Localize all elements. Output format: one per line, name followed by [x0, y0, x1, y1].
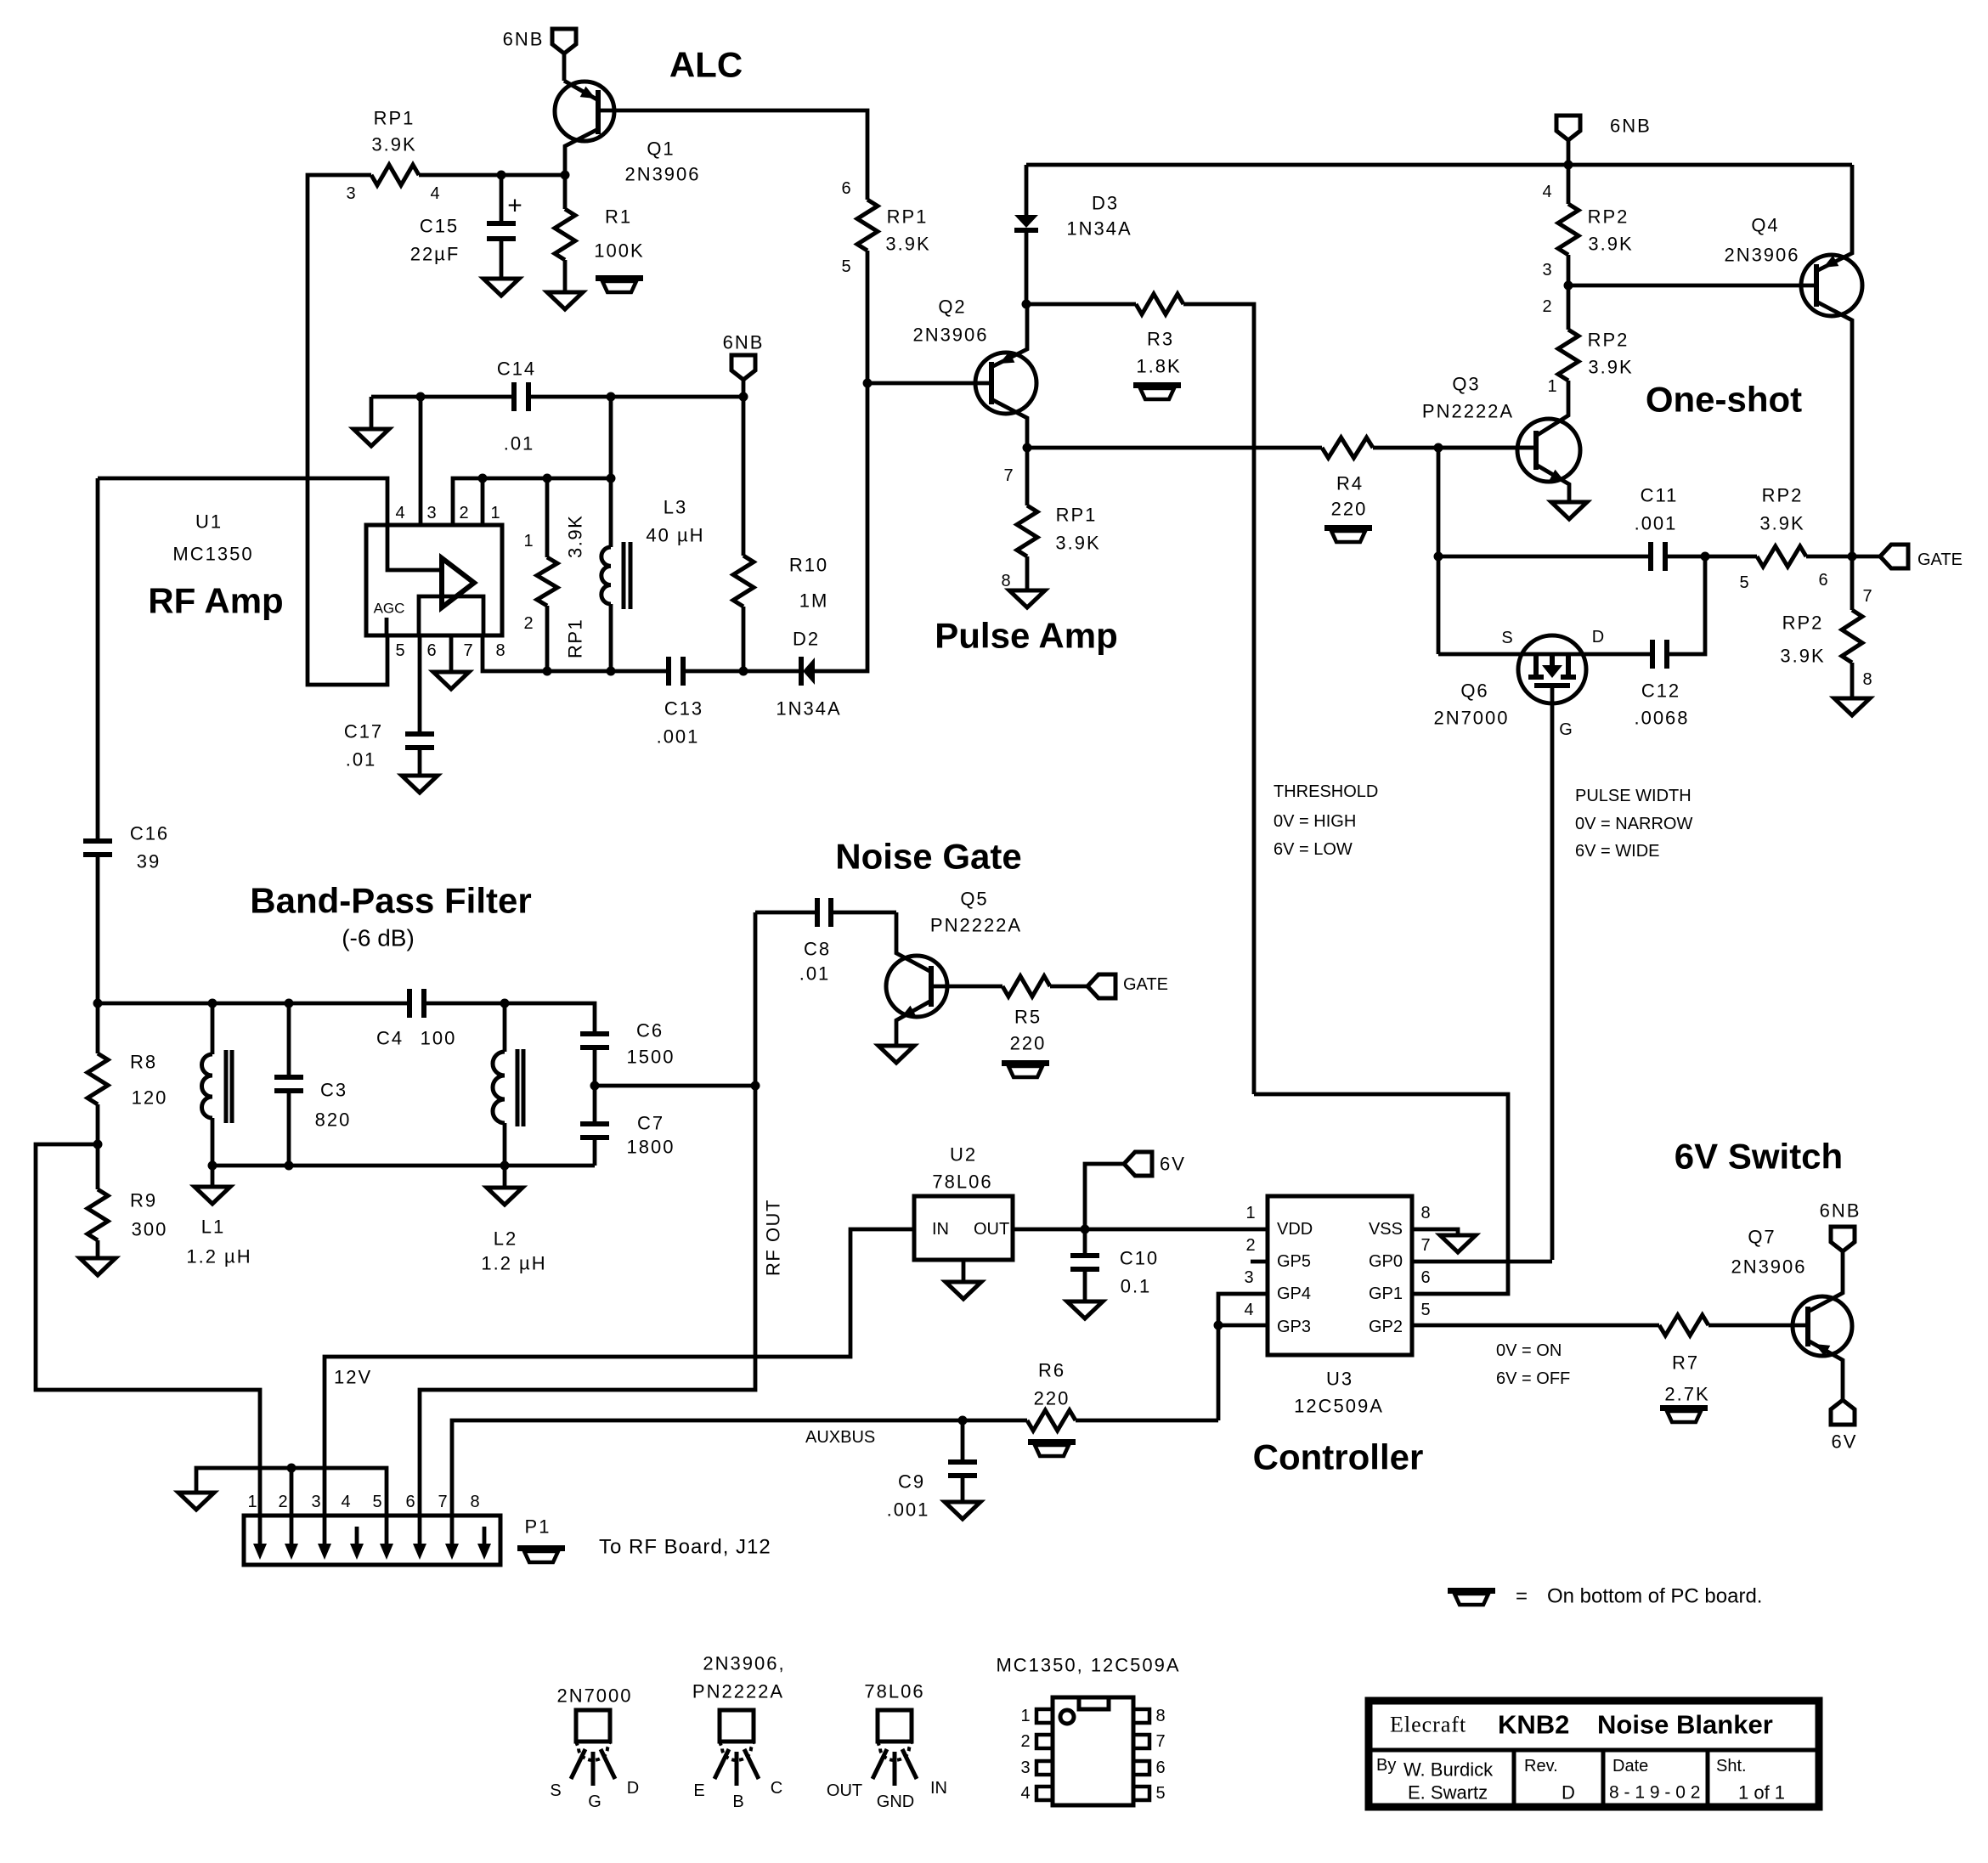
svg-text:2N3906: 2N3906 — [912, 325, 988, 346]
svg-text:RP2: RP2 — [1782, 613, 1824, 634]
svg-text:GP2: GP2 — [1369, 1318, 1403, 1336]
svg-text:820: 820 — [315, 1109, 352, 1131]
node R10 bottom — [739, 667, 748, 676]
U1 pin6 to C17 — [418, 635, 422, 734]
svg-text:3.9K: 3.9K — [1588, 234, 1633, 255]
ground below C17 — [418, 748, 422, 776]
svg-text:3.9K: 3.9K — [565, 515, 586, 558]
wire RP1-4 to Q1 collector node — [419, 173, 565, 178]
node C3 bottom — [285, 1161, 294, 1171]
svg-text:6: 6 — [841, 179, 850, 198]
svg-text:RP1: RP1 — [374, 108, 415, 129]
svg-text:7: 7 — [438, 1493, 447, 1511]
wire Q6 gate down to U3 GP0 — [1550, 686, 1555, 1260]
capacitor C8 .01 — [755, 911, 817, 915]
svg-text:7: 7 — [1155, 1732, 1165, 1751]
svg-text:7: 7 — [463, 641, 472, 660]
svg-text:C16: C16 — [130, 823, 169, 844]
svg-text:G: G — [1559, 720, 1573, 739]
svg-text:C12: C12 — [1641, 680, 1680, 702]
svg-text:6V = OFF: 6V = OFF — [1496, 1369, 1570, 1388]
svg-text:Noise Blanker: Noise Blanker — [1597, 1710, 1773, 1740]
svg-text:Controller: Controller — [1253, 1437, 1424, 1477]
svg-text:1.8K: 1.8K — [1136, 356, 1181, 377]
node C6/C7 junction — [593, 1047, 597, 1124]
svg-text:7: 7 — [1862, 587, 1872, 606]
capacitor C12 .0068 — [1650, 640, 1655, 669]
svg-text:100: 100 — [421, 1028, 457, 1049]
svg-text:S: S — [550, 1781, 561, 1800]
6NB flag above Q7 — [1831, 1227, 1855, 1251]
ground at C14 left end — [370, 397, 374, 429]
wire C6/C7 to RF OUT line — [595, 1084, 755, 1088]
resistor RP1 6-5 3.9K — [857, 200, 878, 251]
svg-text:8: 8 — [1862, 670, 1872, 689]
wire U3 GP0 up to Q6 gate — [1412, 1260, 1552, 1264]
svg-text:L3: L3 — [664, 497, 687, 518]
BPF top rail — [98, 1002, 409, 1006]
node 6V flag/C10 — [1081, 1225, 1090, 1234]
ground below Q5 — [878, 1046, 914, 1063]
svg-text:C3: C3 — [320, 1080, 347, 1101]
svg-text:L2: L2 — [494, 1228, 517, 1250]
transistor Q4 2N3906 — [1801, 255, 1862, 316]
ground below C10 — [1083, 1269, 1087, 1301]
svg-text:C14: C14 — [497, 358, 536, 380]
svg-text:8 - 1 9 - 0 2: 8 - 1 9 - 0 2 — [1609, 1783, 1700, 1803]
svg-text:1: 1 — [1547, 377, 1556, 396]
svg-text:0V = NARROW: 0V = NARROW — [1575, 815, 1692, 833]
MOSFET Q6 2N7000 — [1438, 652, 1652, 657]
svg-text:GP4: GP4 — [1277, 1284, 1311, 1303]
svg-text:100K: 100K — [594, 240, 644, 262]
svg-text:OUT: OUT — [974, 1220, 1009, 1239]
svg-text:ALC: ALC — [669, 45, 743, 85]
svg-text:Date: Date — [1612, 1757, 1648, 1775]
capacitor C9 .001 — [961, 1420, 965, 1462]
svg-text:Q3: Q3 — [1452, 374, 1480, 395]
svg-text:40 µH: 40 µH — [646, 525, 704, 546]
on-bottom icon R7 — [1660, 1405, 1708, 1411]
svg-text:3: 3 — [311, 1493, 320, 1511]
svg-text:.0068: .0068 — [1634, 708, 1689, 729]
ground below U2 — [962, 1260, 966, 1282]
6NB power flag (C14) — [731, 355, 755, 380]
svg-text:0V = ON: 0V = ON — [1496, 1341, 1562, 1360]
wire P1-2 stub — [290, 1468, 294, 1516]
wire U1 pin3 stub — [419, 397, 423, 525]
svg-text:Q1: Q1 — [647, 138, 675, 160]
svg-text:PULSE WIDTH: PULSE WIDTH — [1575, 787, 1691, 805]
svg-text:.01: .01 — [799, 963, 831, 985]
svg-text:C9: C9 — [898, 1471, 925, 1493]
svg-text:VDD: VDD — [1277, 1220, 1313, 1239]
wire U1 pin8 detector line — [483, 635, 669, 671]
svg-text:22µF: 22µF — [410, 244, 460, 265]
svg-text:C10: C10 — [1120, 1248, 1159, 1269]
capacitor C14 .01 — [371, 395, 514, 399]
node Q1 collector/R1 — [561, 171, 570, 180]
resistor RP2 7-8 3.9K — [1850, 556, 1855, 610]
U1 pin1 stub — [481, 478, 485, 525]
svg-text:MC1350: MC1350 — [172, 544, 253, 565]
ground below Q3 — [1551, 502, 1587, 519]
node C14/L3 branch — [607, 392, 616, 402]
svg-text:4: 4 — [430, 184, 439, 203]
resistor RP2 5-6 3.9K — [1757, 546, 1806, 567]
capacitor C17 .01 — [405, 731, 434, 737]
svg-text:U1: U1 — [195, 511, 223, 533]
svg-text:Band-Pass Filter: Band-Pass Filter — [250, 881, 531, 921]
svg-text:R7: R7 — [1672, 1352, 1699, 1374]
node L1 bottom — [208, 1161, 217, 1171]
resistor R4 220 — [1027, 446, 1322, 450]
svg-text:6V Switch: 6V Switch — [1675, 1137, 1843, 1177]
svg-text:4: 4 — [341, 1493, 350, 1511]
capacitor C4 100 — [407, 989, 412, 1018]
RF OUT line down to P1-6 — [420, 912, 755, 1516]
svg-text:5: 5 — [841, 257, 850, 276]
node Q2 collector/R4 — [1023, 443, 1032, 453]
svg-text:C15: C15 — [420, 216, 459, 237]
node L3/C14 — [607, 474, 616, 483]
svg-text:8: 8 — [1420, 1204, 1430, 1222]
svg-text:RF OUT: RF OUT — [763, 1199, 784, 1276]
6NB power flag (one-shot) — [1556, 116, 1580, 140]
svg-text:7: 7 — [1003, 466, 1013, 485]
svg-text:IN: IN — [932, 1220, 949, 1239]
U3 GP5 stub — [1251, 1260, 1268, 1264]
node C9/AUXBUS — [958, 1416, 968, 1425]
svg-text:GND: GND — [877, 1792, 914, 1811]
svg-text:39: 39 — [137, 851, 161, 872]
wire 12V P1-3 to U2 IN — [325, 1229, 914, 1516]
svg-text:2: 2 — [1542, 297, 1551, 316]
svg-text:D2: D2 — [793, 629, 820, 650]
svg-text:5: 5 — [1420, 1301, 1430, 1319]
svg-text:RP2: RP2 — [1588, 206, 1629, 228]
node Q2 base — [863, 379, 873, 388]
capacitor C3 820 — [287, 1003, 291, 1077]
node R8/R9 to P1-1 — [93, 1140, 103, 1149]
svg-text:6NB: 6NB — [503, 29, 545, 50]
svg-text:Sht.: Sht. — [1716, 1757, 1747, 1775]
svg-text:D: D — [1592, 628, 1604, 646]
ground below R9 — [96, 1240, 100, 1258]
svg-text:1800: 1800 — [627, 1137, 675, 1158]
svg-text:RP1: RP1 — [887, 206, 929, 228]
svg-text:(-6 dB): (-6 dB) — [342, 925, 415, 951]
wire U1 pin2/pin1/RP1-1/L3 rail — [453, 478, 611, 525]
svg-text:3.9K: 3.9K — [1759, 513, 1804, 534]
wire Q1 emitter to 6NB — [562, 54, 567, 81]
svg-text:1N34A: 1N34A — [1066, 218, 1132, 240]
resistor R1 100K — [563, 175, 568, 209]
wire U3 GP1 to THRESHOLD — [1254, 1094, 1508, 1294]
svg-text:6NB: 6NB — [723, 332, 765, 353]
svg-text:Q6: Q6 — [1460, 680, 1488, 702]
wire Q3-base node down to Q6 source — [1437, 556, 1441, 654]
svg-text:6V: 6V — [1832, 1431, 1858, 1453]
svg-text:8: 8 — [1155, 1707, 1165, 1725]
svg-text:D3: D3 — [1092, 193, 1119, 214]
svg-text:3: 3 — [426, 504, 436, 522]
wire U2 OUT to U3 VDD — [1013, 1228, 1268, 1232]
on-bottom icon R6 — [1028, 1439, 1076, 1445]
svg-text:2N3906: 2N3906 — [1731, 1256, 1806, 1278]
resistor RP1 7-8 3.9K — [1025, 448, 1030, 505]
svg-text:.01: .01 — [504, 433, 535, 454]
resistor RP2 4-3 3.9K — [1567, 165, 1571, 204]
wire U3 GP2 to R7 — [1412, 1324, 1659, 1328]
svg-text:78L06: 78L06 — [864, 1681, 924, 1702]
node L2 bottom — [500, 1161, 510, 1171]
IC U3 12C509A controller box — [1268, 1196, 1412, 1355]
svg-text:C13: C13 — [664, 698, 703, 720]
6NB power flag (ALC) — [552, 29, 576, 54]
node C11 left — [1434, 552, 1443, 562]
capacitor C10 0.1 — [1070, 1253, 1099, 1258]
node RP1-1 — [543, 474, 552, 483]
svg-text:4: 4 — [395, 504, 404, 522]
node L3 bottom — [607, 667, 616, 676]
inductor L3 40uH — [609, 478, 613, 547]
svg-text:E: E — [693, 1781, 704, 1800]
svg-text:R10: R10 — [789, 555, 828, 576]
svg-text:L1: L1 — [201, 1217, 225, 1238]
svg-text:IN: IN — [930, 1779, 947, 1798]
svg-text:KNB2: KNB2 — [1498, 1710, 1569, 1740]
svg-text:.001: .001 — [657, 726, 700, 748]
svg-text:2: 2 — [459, 504, 468, 522]
svg-text:C17: C17 — [344, 721, 383, 742]
svg-text:1: 1 — [490, 504, 500, 522]
IC U1 MC1350 RF amp box — [366, 525, 502, 635]
diode D2 1N34A — [799, 657, 804, 686]
svg-text:R8: R8 — [130, 1052, 157, 1073]
svg-text:3.9K: 3.9K — [1780, 646, 1825, 667]
svg-text:G: G — [588, 1792, 601, 1811]
svg-text:5: 5 — [372, 1493, 381, 1511]
svg-text:One-shot: One-shot — [1646, 380, 1802, 420]
wire U3 GP4/GP3 tie to AUXBUS — [1218, 1294, 1268, 1420]
svg-text:6: 6 — [1155, 1759, 1165, 1777]
svg-text:2N3906,: 2N3906, — [703, 1653, 785, 1674]
svg-text:Q4: Q4 — [1751, 215, 1779, 236]
svg-text:Rev.: Rev. — [1524, 1757, 1558, 1775]
ground below L2 — [503, 1166, 507, 1188]
svg-text:PN2222A: PN2222A — [930, 915, 1022, 936]
GATE input flag (noise gate) — [1087, 974, 1115, 998]
svg-text:3: 3 — [346, 184, 355, 203]
capacitor C6 1500 — [580, 1031, 609, 1036]
6V output flag (U2) — [1085, 1164, 1124, 1229]
svg-text:4: 4 — [1542, 183, 1551, 201]
wire D2 to Q2 base node — [815, 383, 867, 671]
svg-text:1: 1 — [523, 532, 533, 550]
svg-text:R4: R4 — [1336, 473, 1364, 494]
svg-text:THRESHOLD: THRESHOLD — [1274, 782, 1378, 801]
svg-text:RP1: RP1 — [1056, 505, 1098, 526]
svg-text:C4: C4 — [376, 1028, 404, 1049]
svg-text:1: 1 — [1245, 1204, 1255, 1222]
on-bottom icon P1 — [517, 1545, 565, 1551]
resistor R3 1.8K — [1026, 302, 1136, 307]
ground below RP2-8 — [1850, 663, 1855, 698]
svg-text:12C509A: 12C509A — [1294, 1396, 1384, 1417]
svg-text:GP1: GP1 — [1369, 1284, 1403, 1303]
svg-text:8: 8 — [1001, 572, 1010, 590]
svg-text:2N3906: 2N3906 — [624, 164, 700, 185]
node L2 top — [500, 999, 510, 1008]
svg-text:2: 2 — [523, 614, 533, 633]
svg-text:To RF Board, J12: To RF Board, J12 — [599, 1536, 771, 1559]
on-bottom icon R3 — [1133, 382, 1181, 388]
svg-text:2N3906: 2N3906 — [1724, 245, 1799, 266]
svg-text:6V = LOW: 6V = LOW — [1274, 840, 1353, 859]
U1 internal amp symbol — [387, 525, 441, 570]
svg-text:Elecraft: Elecraft — [1390, 1713, 1466, 1737]
svg-text:5: 5 — [1155, 1784, 1165, 1803]
svg-text:3: 3 — [1542, 261, 1551, 279]
svg-text:1M: 1M — [799, 590, 829, 612]
ground below L1 — [211, 1166, 215, 1187]
node C11/C12 branch — [1701, 552, 1710, 562]
wire RP1-5 down to Q2 base node — [866, 251, 870, 383]
node D3/R3/Q2 emitter — [1022, 300, 1031, 309]
transistor Q3 PN2222A — [1517, 419, 1580, 482]
legend on-bottom icon — [1448, 1588, 1495, 1594]
svg-text:MC1350, 12C509A: MC1350, 12C509A — [996, 1655, 1180, 1676]
svg-text:PN2222A: PN2222A — [692, 1681, 784, 1702]
svg-text:R6: R6 — [1038, 1360, 1065, 1381]
one-shot 6NB rail — [1026, 163, 1852, 167]
diode D3 1N34A — [1025, 165, 1029, 215]
resistor RP1 1-2 3.9K — [545, 478, 550, 557]
ground below R1 — [563, 260, 568, 292]
svg-text:8: 8 — [470, 1493, 479, 1511]
svg-text:4: 4 — [1244, 1301, 1253, 1319]
transistor Q5 PN2222A noise gate — [886, 956, 947, 1017]
svg-text:5: 5 — [1739, 573, 1748, 592]
wire R8/R9 node to P1-1 — [36, 1144, 260, 1516]
svg-text:1: 1 — [247, 1493, 257, 1511]
svg-text:6V: 6V — [1160, 1154, 1186, 1175]
transistor Q2 2N3906 pulse amp — [975, 353, 1036, 414]
svg-text:3.9K: 3.9K — [885, 234, 930, 255]
node RP1-4/C15 — [497, 171, 506, 180]
svg-text:C7: C7 — [637, 1113, 664, 1134]
wire RP1-3 left and down to U1 pin5 — [308, 175, 387, 685]
title block — [1369, 1701, 1819, 1807]
svg-text:2: 2 — [1020, 1732, 1030, 1751]
node GATE/Q4 collector/RP2-7 — [1848, 552, 1857, 562]
node 6NB/R10 — [739, 392, 748, 402]
svg-text:2.7K: 2.7K — [1664, 1384, 1709, 1405]
svg-text:RP1: RP1 — [565, 618, 586, 658]
svg-text:C11: C11 — [1641, 485, 1679, 506]
svg-text:7: 7 — [1420, 1236, 1430, 1255]
svg-text:.01: .01 — [346, 749, 377, 771]
svg-text:B: B — [732, 1792, 743, 1811]
svg-text:P1: P1 — [525, 1516, 551, 1538]
resistor R10 1M — [742, 397, 746, 556]
svg-text:12V: 12V — [334, 1367, 372, 1388]
svg-text:RF Amp: RF Amp — [148, 581, 283, 621]
svg-text:Pulse Amp: Pulse Amp — [935, 616, 1118, 656]
svg-text:By: By — [1376, 1756, 1396, 1775]
svg-text:S: S — [1501, 629, 1512, 647]
svg-text:RP2: RP2 — [1762, 485, 1804, 506]
svg-text:D: D — [627, 1779, 639, 1798]
svg-text:2N7000: 2N7000 — [1433, 708, 1509, 729]
svg-text:300: 300 — [132, 1219, 168, 1240]
svg-text:U3: U3 — [1326, 1369, 1353, 1390]
svg-text:R9: R9 — [130, 1190, 157, 1211]
node C3 top — [285, 999, 294, 1008]
capacitor C15 22uF + — [500, 175, 504, 223]
svg-text:R5: R5 — [1014, 1007, 1042, 1028]
svg-text:GP3: GP3 — [1277, 1318, 1311, 1336]
resistor RP2 2-1 3.9K — [1567, 285, 1571, 330]
inductor L2 1.2uH — [503, 1003, 507, 1052]
resistor R7 2.7K — [1659, 1315, 1708, 1335]
svg-text:1N34A: 1N34A — [776, 698, 841, 720]
BPF bottom rail — [212, 1164, 595, 1168]
svg-text:1500: 1500 — [627, 1047, 675, 1068]
node 6NB rail/RP2-4 — [1564, 161, 1573, 170]
ground below RP1-8 — [1025, 556, 1030, 590]
inductor L1 1.2uH — [211, 1003, 215, 1054]
resistor R9 300 — [88, 1189, 108, 1240]
svg-text:=: = — [1516, 1585, 1528, 1608]
svg-text:2: 2 — [278, 1493, 287, 1511]
svg-text:PN2222A: PN2222A — [1422, 401, 1514, 422]
svg-text:0V = HIGH: 0V = HIGH — [1274, 812, 1356, 831]
svg-text:AGC: AGC — [374, 601, 405, 617]
svg-text:C8: C8 — [804, 939, 831, 960]
on-bottom icon R5 — [1002, 1060, 1049, 1066]
svg-text:0.1: 0.1 — [1121, 1276, 1152, 1297]
node RP2-3/Q4 base — [1564, 281, 1573, 291]
GATE output flag (one-shot) — [1880, 545, 1908, 568]
svg-text:6NB: 6NB — [1610, 116, 1652, 137]
capacitor C13 .001 — [666, 657, 671, 686]
svg-text:2: 2 — [1245, 1236, 1255, 1255]
svg-text:RP2: RP2 — [1588, 330, 1629, 351]
wire Q1 base to one-shot rail — [600, 110, 867, 200]
svg-text:78L06: 78L06 — [932, 1171, 992, 1193]
wire Q3 base down to C11 — [1437, 448, 1441, 556]
svg-text:VSS: VSS — [1369, 1220, 1403, 1239]
svg-text:2N7000: 2N7000 — [556, 1685, 632, 1707]
ground below C15 — [500, 239, 504, 279]
svg-text:On bottom of PC board.: On bottom of PC board. — [1547, 1585, 1762, 1608]
svg-text:220: 220 — [1010, 1033, 1047, 1054]
svg-text:AUXBUS: AUXBUS — [805, 1428, 875, 1447]
wire RF input to U1 pin4 — [98, 478, 387, 525]
U3 VSS to ground — [1412, 1229, 1458, 1235]
svg-text:.001: .001 — [1635, 513, 1678, 534]
capacitor C11 .001 — [1438, 555, 1651, 559]
svg-text:1: 1 — [1020, 1707, 1030, 1725]
svg-text:GATE: GATE — [1123, 975, 1168, 994]
svg-text:6: 6 — [1420, 1268, 1430, 1287]
svg-text:3: 3 — [1020, 1759, 1030, 1777]
svg-text:Q2: Q2 — [938, 296, 966, 318]
node P1-2 ground — [287, 1464, 297, 1473]
svg-text:4: 4 — [1020, 1784, 1030, 1803]
